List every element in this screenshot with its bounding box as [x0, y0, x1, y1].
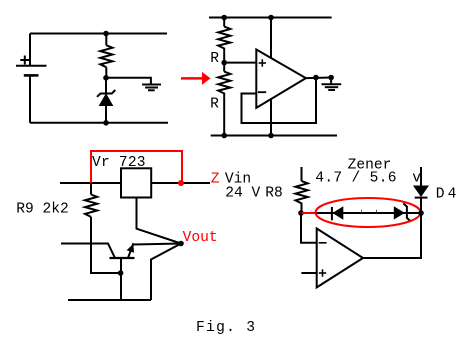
- resistor R2: [218, 72, 230, 97]
- node base-R9 junction: [118, 270, 124, 276]
- svg-text:D: D: [436, 187, 445, 203]
- op-amp U1: [256, 50, 306, 108]
- wire resistor bottom lead: [105, 67, 107, 78]
- node bottom rail junction: [103, 120, 109, 126]
- resistor R9: [85, 195, 97, 217]
- wire node to plus input: [224, 62, 256, 64]
- transistor Q1 emitter with arrow: [127, 243, 134, 258]
- transistor Q1 base bar: [110, 257, 135, 259]
- wire op-amp output feedback: [363, 213, 421, 258]
- wire D4 to node: [420, 198, 422, 214]
- wire top rail: [30, 33, 167, 35]
- zener diode left (back-to-back pair): [332, 206, 343, 220]
- wire node to ground: [106, 78, 151, 84]
- red ellipse annotation: [316, 198, 421, 227]
- red wire node to ellipse: [301, 212, 316, 214]
- node R1-R2 divider: [221, 60, 227, 66]
- svg-text:R9 2k2: R9 2k2: [16, 202, 69, 218]
- node output feedback: [313, 75, 319, 81]
- wire regulator output lead: [137, 198, 182, 244]
- svg-text:Fig. 3: Fig. 3: [196, 320, 256, 336]
- resistor R1: [218, 27, 230, 52]
- wire Vin rail left segment: [60, 182, 120, 184]
- wire R9 to base node: [91, 217, 121, 273]
- svg-text:R8: R8: [265, 185, 283, 201]
- wire R2 bottom lead: [223, 97, 225, 136]
- red wire over regulator: [91, 151, 182, 183]
- wire resistor top lead: [105, 34, 107, 46]
- svg-text:4.7 / 5.6: 4.7 / 5.6: [315, 171, 397, 187]
- wire node to minus input: [301, 213, 317, 243]
- wire R1 top lead: [223, 18, 225, 27]
- node bottom rail R2: [221, 133, 227, 139]
- op-amp U2: [317, 229, 363, 288]
- op-amp plus marking: [319, 269, 326, 276]
- wire output ground stub: [330, 78, 332, 85]
- svg-text:R: R: [210, 51, 219, 67]
- resistor (top-left): [100, 45, 112, 67]
- wire battery positive lead: [29, 34, 31, 66]
- transistor Q1 base lead: [120, 258, 122, 300]
- op-amp plus marking: [259, 59, 266, 66]
- zener diode right (back-to-back pair): [394, 203, 411, 221]
- wire R1 to node: [223, 52, 225, 72]
- wire bottom rail: [68, 299, 151, 301]
- node output ground: [328, 75, 334, 81]
- wire minus input feedback loop: [242, 78, 317, 124]
- regulator U3 box 723: [121, 168, 151, 197]
- wire D4 top stub: [420, 167, 422, 186]
- node top rail junction: [103, 31, 109, 37]
- wire emitter to Vout: [134, 244, 182, 245]
- zener diode D1: [97, 90, 115, 106]
- svg-text:Z: Z: [211, 171, 220, 187]
- node Vout: [178, 241, 184, 247]
- wire op-amp output: [306, 77, 331, 80]
- wire Vout down branch: [151, 244, 181, 301]
- svg-text:Vout: Vout: [183, 230, 218, 246]
- wire collector lead: [61, 244, 115, 259]
- node resistor-zener junction: [103, 75, 109, 81]
- wire zener top lead: [105, 78, 107, 94]
- tick marks on zener link wire: [362, 210, 377, 213]
- wire bottom rail: [30, 122, 168, 124]
- svg-text:R: R: [210, 96, 219, 112]
- ground (top-right circuit): [322, 84, 342, 90]
- wire plus input stub: [301, 272, 316, 274]
- battery plus sign: [20, 56, 29, 65]
- diode D4: [413, 186, 429, 198]
- wire battery negative lead: [29, 76, 31, 123]
- ground (top-left circuit): [142, 85, 161, 91]
- wire Vin rail right segment: [152, 182, 210, 184]
- op-amp minus marking: [319, 242, 327, 244]
- svg-text:4: 4: [448, 187, 457, 203]
- wire through back-to-back zeners: [316, 212, 421, 214]
- node R8 bottom: [298, 210, 304, 216]
- battery B1: [16, 66, 47, 76]
- node top rail power: [268, 15, 274, 21]
- op-amp minus marking: [258, 91, 266, 93]
- resistor R8: [296, 181, 308, 213]
- node top rail R1: [221, 15, 227, 21]
- node red Vin junction: [178, 180, 184, 186]
- svg-text:v: v: [412, 171, 421, 187]
- wire top rail: [209, 17, 332, 19]
- svg-text:24 V: 24 V: [225, 185, 260, 201]
- red arrow between circuits: [181, 72, 211, 85]
- wire zener bottom lead: [105, 105, 107, 123]
- node diode line right: [418, 210, 424, 216]
- node bottom rail power: [268, 133, 274, 139]
- wire R9 top lead: [90, 183, 92, 195]
- wire op-amp power line: [270, 18, 272, 136]
- wire R8 top stub: [301, 167, 303, 181]
- wire bottom rail: [211, 135, 337, 137]
